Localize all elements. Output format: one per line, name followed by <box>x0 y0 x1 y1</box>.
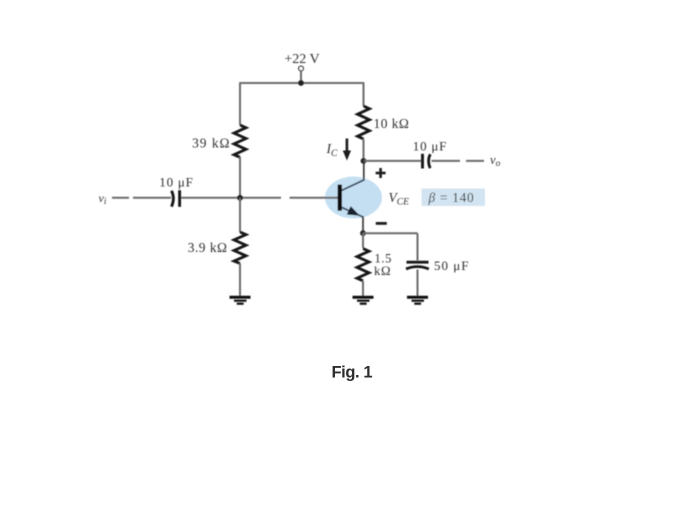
wire top rail <box>240 82 364 84</box>
resistor 39 kOhm <box>234 125 246 157</box>
node emitter junction <box>360 230 366 236</box>
capacitor C1 10uF curved plate <box>172 191 174 207</box>
wire bypass branch down <box>417 233 419 260</box>
wire right branch upper <box>363 82 365 106</box>
wire output left segment <box>364 160 422 162</box>
transistor Q1 emitter arrow <box>347 206 360 216</box>
svg-text:10 μF: 10 μF <box>413 139 447 154</box>
beta highlight box <box>422 189 486 207</box>
resistor 1.5 kOhm <box>357 249 369 281</box>
wire emitter stub <box>362 216 364 233</box>
node base divider junction <box>237 195 243 201</box>
wire 50uF to ground <box>417 270 419 297</box>
ground left <box>230 297 251 304</box>
wire 1.5k to ground <box>362 281 364 296</box>
wire left branch upper <box>239 82 241 125</box>
transistor Q1 base bar <box>338 185 342 211</box>
wire capacitor to base node <box>181 197 281 199</box>
resistor 3.9 kOhm <box>234 232 246 264</box>
node supply junction <box>298 80 304 86</box>
current arrow I_C <box>343 139 351 161</box>
supply terminal circle <box>299 66 304 71</box>
label minus emitter <box>376 222 387 225</box>
wire input to capacitor <box>133 197 171 199</box>
wire emitter branch down <box>362 233 364 248</box>
svg-text:10 μF: 10 μF <box>159 175 193 190</box>
svg-text:+22 V: +22 V <box>284 52 319 67</box>
svg-text:50 μF: 50 μF <box>434 258 469 273</box>
capacitor C3 50uF top plate <box>407 261 429 264</box>
ground bypass <box>407 297 428 304</box>
svg-text:β = 140: β = 140 <box>428 190 475 205</box>
wire output right segment <box>432 160 461 162</box>
svg-text:10 kΩ: 10 kΩ <box>374 116 410 131</box>
node collector output junction <box>361 158 367 164</box>
wire left branch lower <box>239 198 241 232</box>
svg-text:3.9 kΩ: 3.9 kΩ <box>188 240 228 255</box>
capacitor C1 10uF straight plate <box>178 190 181 207</box>
label plus collector <box>376 168 386 178</box>
wire 10k to collector node <box>363 139 365 161</box>
transistor Q1 highlight circle <box>325 177 382 219</box>
transistor Q1 collector diagonal <box>342 180 365 191</box>
wire 39k to base node <box>239 157 241 198</box>
wire output lead dash <box>466 160 484 162</box>
transistor Q1 emitter diagonal <box>342 207 364 217</box>
svg-text:Fig. 1: Fig. 1 <box>332 364 373 382</box>
capacitor C2 10uF curved plate <box>429 154 431 168</box>
capacitor C3 50uF bottom plate <box>406 267 429 269</box>
wire 3.9k to ground <box>239 264 241 297</box>
wire emitter to bypass branch <box>363 232 418 234</box>
wire supply stem <box>300 71 302 83</box>
resistor 10 kOhm <box>358 106 370 139</box>
capacitor C2 10uF straight plate <box>421 154 424 169</box>
svg-text:39 kΩ: 39 kΩ <box>192 136 230 151</box>
wire input lead dash <box>112 197 129 199</box>
ground emitter <box>353 297 374 304</box>
wire collector stub <box>363 161 365 181</box>
svg-text:kΩ: kΩ <box>374 264 391 278</box>
wire to transistor base <box>290 197 340 199</box>
